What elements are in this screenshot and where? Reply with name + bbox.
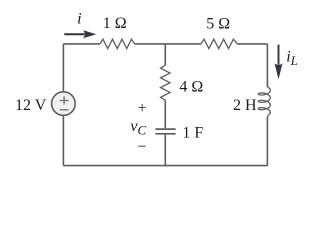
svg-text:4 Ω: 4 Ω [179,79,203,96]
svg-text:1 F: 1 F [182,125,203,142]
wire left vertical lower [62,115,64,165]
resistor 1ohm zigzag [100,39,135,48]
wire bottom [63,165,267,167]
capacitor 1F plates [155,129,175,134]
svg-text:vC: vC [130,118,146,137]
svg-text:1 Ω: 1 Ω [103,15,127,32]
inductor 2H coil [258,87,270,116]
wire middle between resistor and capacitor [164,100,166,128]
wire right vertical lower [266,116,268,165]
current arrow i [64,30,96,38]
wire middle vertical upper [164,44,166,65]
current arrow iL [275,45,283,80]
svg-text:−: − [137,138,146,155]
voltage source V1 circle [52,92,76,116]
voltage source plus symbol [60,96,69,110]
wire top-left segment [63,43,100,45]
wire top-right segment [237,43,267,45]
svg-text:12 V: 12 V [15,97,47,114]
wire right vertical upper [266,44,268,87]
wire middle below capacitor [164,135,166,166]
svg-text:5 Ω: 5 Ω [206,15,230,32]
voltage source minus symbol [60,109,69,111]
wire left vertical upper [62,44,64,92]
svg-text:+: + [138,100,147,117]
svg-text:iL: iL [286,49,298,68]
svg-text:i: i [77,10,81,27]
wire top-middle segment [135,43,201,45]
svg-text:2 H: 2 H [233,97,257,114]
resistor 4ohm zigzag [161,65,170,100]
resistor 5ohm zigzag [201,39,237,48]
